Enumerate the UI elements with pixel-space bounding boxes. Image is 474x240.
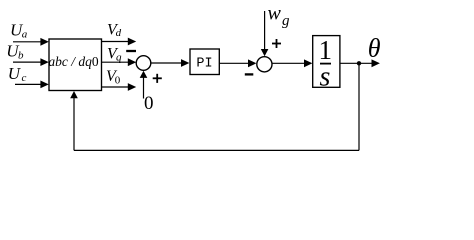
wire PI to summer 2 [219,59,256,67]
svg-text:d: d [116,27,122,39]
svg-text:w: w [268,3,282,25]
svg-text:b: b [18,49,24,61]
svg-text:1: 1 [319,35,333,65]
input Ua label [10,20,28,40]
input Uc label [8,64,27,84]
block abc/dq0 [48,39,101,91]
svg-text:a: a [22,29,28,41]
output Vd label [107,22,122,39]
wire feedback down from node [358,63,360,150]
input Ub label [6,41,24,61]
block integrator 1/s [313,35,340,93]
summing junction 1 [136,56,151,71]
wire wg input to summer 2 [261,11,269,56]
minus sign at summer 1 [126,50,136,52]
svg-text:g: g [282,13,290,29]
svg-text:PI: PI [196,56,212,71]
svg-text:0: 0 [144,93,154,114]
svg-text:s: s [319,61,330,92]
minus sign at summer 2 [245,73,254,75]
svg-text:U: U [8,64,22,83]
plus sign at summer 2 [272,39,281,48]
wire summer2 to integrator [272,59,312,67]
svg-text:0: 0 [115,74,121,86]
wire Ua [13,38,49,46]
wire 0 input to summer 1 [140,71,148,99]
label wg [268,3,291,29]
wire Vq [102,58,137,66]
wire integrator output [340,59,380,67]
svg-text:q: q [116,51,122,63]
svg-text:abc / dq0: abc / dq0 [48,54,99,69]
wire Ub [13,58,49,66]
node junction dot [357,61,361,65]
summing junction 2 [257,57,272,72]
svg-text:θ: θ [368,33,381,62]
output V0 label [106,68,121,86]
wire Uc [15,81,49,89]
block PI [190,49,219,75]
wire summer1 to PI [151,59,190,67]
svg-text:c: c [22,72,27,84]
output Vq label [107,46,122,64]
wire feedback up into block [70,91,78,150]
wire Vd [102,38,137,46]
wire feedback bottom [74,149,359,151]
plus sign at summer 1 [153,74,162,83]
wire V0 [102,83,137,91]
